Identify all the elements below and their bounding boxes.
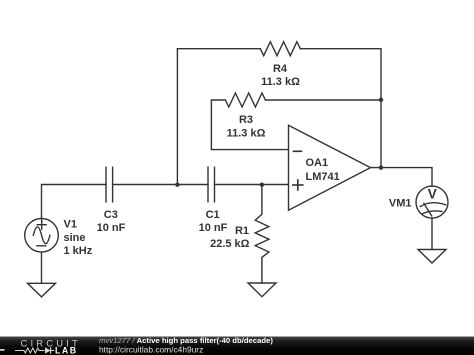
svg-text:1 kHz: 1 kHz — [64, 245, 93, 257]
svg-text:VM1: VM1 — [389, 198, 412, 210]
svg-text:C1: C1 — [206, 209, 220, 221]
wire V1 to C3 — [42, 185, 107, 219]
wire top loop left — [177, 48, 260, 50]
logo diode symbol — [45, 347, 54, 353]
svg-text:V1: V1 — [64, 219, 77, 231]
wire node A up to top loop — [176, 49, 178, 185]
svg-text:R3: R3 — [239, 114, 253, 126]
wire C3 to C1 — [113, 184, 208, 186]
svg-text:10 nF: 10 nF — [199, 222, 228, 234]
resistor R1 — [255, 185, 269, 284]
svg-text:V: V — [428, 187, 437, 202]
logo resistor symbol — [15, 348, 45, 353]
node junction output — [379, 165, 383, 169]
svg-text:LM741: LM741 — [306, 171, 340, 183]
logo wire left stub — [0, 349, 5, 351]
svg-text:R1: R1 — [235, 225, 249, 237]
svg-text:OA1: OA1 — [306, 157, 329, 169]
voltmeter VM1 — [416, 186, 448, 218]
voltage source V1 — [25, 219, 59, 253]
wire R3 to output node — [265, 99, 381, 101]
wire C1 to op-amp plus input — [215, 184, 289, 186]
ground VM1 — [418, 250, 446, 264]
ground R1 — [248, 283, 276, 297]
svg-text:sine: sine — [64, 232, 86, 244]
svg-text:11.3 kΩ: 11.3 kΩ — [261, 76, 300, 88]
svg-text:10 nF: 10 nF — [97, 222, 126, 234]
node junction R3 output — [379, 98, 383, 102]
svg-text:C3: C3 — [104, 209, 118, 221]
op-amp plus pin symbol — [293, 180, 303, 190]
wire V1 to ground — [41, 252, 43, 283]
svg-text:http://circuitlab.com/c4h9urz: http://circuitlab.com/c4h9urz — [99, 345, 203, 355]
resistor R4 — [260, 42, 300, 56]
node junction plus input R1 — [260, 183, 264, 187]
capacitor C3 — [106, 167, 113, 202]
node junction C3-C1-top — [175, 183, 179, 187]
wire minus input to R3 — [211, 100, 288, 150]
wire R4 right and down to output — [300, 49, 381, 168]
svg-text:22.5 kΩ: 22.5 kΩ — [210, 238, 250, 250]
capacitor C1 — [208, 167, 215, 202]
wire VM1 to ground — [431, 218, 433, 249]
svg-text:R4: R4 — [273, 63, 288, 75]
svg-text:LAB: LAB — [55, 346, 78, 355]
op-amp U1 triangle — [289, 125, 371, 210]
op-amp minus pin symbol — [294, 150, 302, 152]
svg-text:11.3 kΩ: 11.3 kΩ — [227, 127, 266, 139]
ground V1 — [28, 283, 56, 297]
wire op-amp output to VM1 — [371, 168, 433, 187]
resistor R3 — [225, 93, 265, 107]
